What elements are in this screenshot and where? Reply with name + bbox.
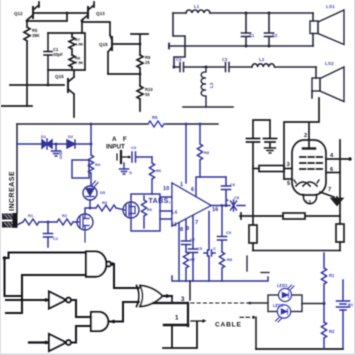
svg-text:R2: R2 [329,329,335,334]
svg-text:R6: R6 [156,168,162,173]
svg-text:1: 1 [175,315,179,322]
wire node [139,73,142,76]
svg-text:C4: C4 [176,57,182,62]
capacitor C5 [189,216,198,282]
box TABS [131,194,160,231]
wire LED left [248,302,268,304]
wire INV1 input [6,299,49,301]
svg-text:R1: R1 [329,273,335,278]
resistor R10 50 [137,86,143,111]
svg-text:L1: L1 [194,4,200,9]
capacitor C3b [132,152,152,162]
wire mid row [240,213,340,219]
capacitor C1 [242,13,251,46]
wire output [211,205,245,207]
inductor L2 [252,64,316,67]
capacitor C3 [226,63,253,72]
transistor Q17 [111,37,113,50]
inverter U3 [49,292,66,309]
anode plate [303,147,315,149]
ground [265,148,276,153]
svg-text:7: 7 [195,220,198,226]
cathode arcs [296,182,317,186]
svg-text:R2: R2 [62,213,68,218]
grid dashes [300,157,322,169]
wire top rail [173,12,313,14]
node A [173,66,176,69]
wire cable dashed lower [191,320,202,322]
NAND gate U2 [86,252,106,277]
svg-text:C2: C2 [272,33,278,38]
wire node row [47,84,50,87]
XOR gate U6 [137,286,140,307]
microphone jack [120,151,122,163]
MOSFET Q2 [123,202,139,218]
svg-text:C6: C6 [230,182,236,187]
diode D2 [67,140,75,148]
wire pin8 drop [178,223,180,282]
resistor R7 [183,252,188,281]
wire LED right [302,303,324,305]
resistor box left vertical [249,225,257,243]
wire left column [252,166,254,225]
op-amp U1 [172,183,211,226]
svg-text:R8: R8 [227,257,233,262]
resistor R6 [149,157,154,194]
tube V1 envelope [292,140,326,195]
wire to Q1 [85,208,96,214]
wire from top [90,124,92,155]
resistor R2 [57,219,77,225]
resistor R1 [23,219,57,225]
resistor R7 4.5K [69,33,75,55]
svg-text:10: 10 [163,186,169,192]
ground pin7 [332,199,343,206]
AND gate U5 [91,312,108,331]
ground jack [120,163,129,174]
diode D1 [42,139,52,149]
svg-text:R5: R5 [152,115,158,120]
resistor R8 [197,124,202,177]
speaker LS2 [315,67,317,78]
svg-text:LED1: LED1 [277,283,288,288]
capacitor C1b [44,222,53,247]
svg-text:14: 14 [171,210,178,216]
node input A [3,256,7,260]
resistor R3 [96,205,123,211]
inductor L3 [201,67,206,107]
svg-text:C5: C5 [197,246,203,251]
edge vignette [0,0,1,355]
svg-text:C9: C9 [226,230,232,235]
speaker LS1 [312,13,314,21]
capacitor C8 [231,200,237,211]
svg-text:Q15: Q15 [99,42,108,47]
svg-text:R4: R4 [95,162,101,167]
svg-text:11: 11 [171,222,177,228]
wire to Q17 [82,22,110,35]
svg-text:LED2: LED2 [273,303,284,308]
resistor R5 [148,121,166,127]
G6_ledcable [153,253,354,349]
resistor R2c [321,322,326,349]
resistor R1c [321,253,326,322]
wire Q12 collector loop [26,20,29,23]
connector pin 1 [164,324,188,326]
svg-text:C1: C1 [249,33,255,38]
svg-text:R1: R1 [28,213,34,218]
ground GND [52,144,61,156]
capacitor C6 [222,177,231,205]
transistor Q15 [67,79,69,92]
svg-text:LS2: LS2 [325,61,334,67]
wire mid rail [169,45,313,47]
svg-text:2: 2 [304,133,307,139]
inverter U4 [29,341,49,343]
wire Q13 collector [81,20,84,23]
wire input step [173,13,185,67]
capacitor C9 [218,237,227,253]
svg-text:50: 50 [145,92,150,97]
capacitor C7 [182,219,191,252]
svg-text:LS1: LS1 [326,4,335,10]
svg-text:GND: GND [59,150,63,159]
transistor Q12 [32,7,34,18]
svg-text:L3: L3 [209,82,214,88]
inductor L1 [186,10,210,13]
svg-text:8: 8 [180,227,183,233]
node [89,200,91,208]
wire pin6 [196,177,226,196]
svg-text:R9: R9 [147,208,152,212]
svg-text:INPUT: INPUT [106,144,125,151]
resistor R9 [141,196,146,228]
svg-text:3: 3 [181,296,185,303]
wire bottom left [0,105,32,107]
svg-text:D2: D2 [68,134,74,139]
svg-text:7: 7 [328,187,331,193]
svg-text:39K: 39K [32,33,40,38]
wire cable dashed upper [191,302,265,304]
wire left border [16,124,18,213]
wire stub minus [247,256,269,273]
wire NAND output [111,264,139,288]
svg-text:C8: C8 [234,195,240,200]
svg-text:+: + [226,198,229,204]
svg-text:CABLE: CABLE [215,322,242,329]
wire NAND input A [5,253,87,259]
wire bottom segment [183,106,233,108]
wire row2 [203,66,224,68]
connector pin 3 [171,296,173,303]
svg-text:1: 1 [180,182,183,188]
LED loop [268,295,302,312]
G5_logic [3,252,172,352]
resistor box right vertical [336,224,344,242]
LED1 [279,289,292,302]
resistor R8b [219,252,224,281]
svg-text:INCREASE: INCREASE [9,171,16,211]
pin 6 [326,172,340,174]
svg-text:A F: A F [112,136,129,143]
wire pin1 feed [185,124,187,183]
svg-text:C3: C3 [131,145,137,150]
wire right rail [131,34,148,55]
capacitor C1 30pF [44,33,52,85]
MOSFET Q1 [77,214,93,230]
resistor R5 39K [24,21,30,106]
battery B1 [342,280,344,300]
G4_tube [240,98,352,273]
svg-text:Q12: Q12 [14,11,23,16]
svg-text:C3: C3 [222,57,228,62]
wire below output [221,206,223,237]
svg-text:L3: L3 [306,199,312,204]
wire top bridge [253,120,270,138]
pin 4 [326,158,349,160]
wire INV1 output [71,300,91,317]
svg-text:6: 6 [191,187,194,193]
svg-text:B1: B1 [348,302,354,307]
wire connector drop [189,281,191,300]
wire XOR output [163,295,173,297]
LED D5 [83,186,97,200]
svg-text:L2: L2 [259,57,265,62]
svg-text:C: C [213,246,216,251]
G2_crossover [169,4,344,107]
svg-text:D5: D5 [100,190,106,195]
svg-text:R8: R8 [204,150,210,155]
resistor grid box [253,168,259,170]
wire top border [17,123,218,125]
svg-text:D1: D1 [41,134,47,139]
svg-text:30pF: 30pF [53,52,63,57]
G1_741 [0,2,153,117]
node B [205,66,208,69]
capacitor Cb [264,139,277,148]
svg-text:C1: C1 [53,236,59,241]
svg-text:4.5K: 4.5K [75,42,84,47]
heater dome [303,195,316,204]
svg-text:Q15: Q15 [55,74,64,79]
potentiometer R4 [88,155,93,186]
wire bottom left rail [163,322,343,349]
wire box pins [160,197,172,219]
resistor R9 25 [137,55,143,86]
svg-text:TABS.: TABS. [149,198,171,205]
wire INV2 output [71,326,91,343]
pin 5 [284,178,292,180]
potentiometer slider track [2,214,17,228]
wire AND output [110,302,139,322]
svg-text:7.5K: 7.5K [75,60,84,65]
capacitor Ca [247,139,260,167]
wire bottom rail [253,250,340,252]
wire NAND input B [5,258,87,313]
wire feedback loop [48,33,85,70]
svg-text:Q13: Q13 [96,11,105,16]
svg-text:R3: R3 [102,200,108,205]
svg-text:16: 16 [212,207,218,213]
resistor box horizontal [283,213,305,219]
wire branch [17,143,42,145]
svg-text:G: G [129,171,132,175]
LED2 [277,305,290,318]
resistor R8 7.5K [69,55,75,70]
capacitor C4 [174,63,203,72]
wire bottom rail [172,276,268,281]
capacitor C2 [265,13,274,46]
wire right column [339,140,341,224]
capacitor C10 [204,212,215,282]
svg-text:25: 25 [145,60,150,65]
G3_blue [2,115,268,281]
wire Q12 base to Q13 base [33,12,88,14]
transistor Q13 [87,7,89,18]
